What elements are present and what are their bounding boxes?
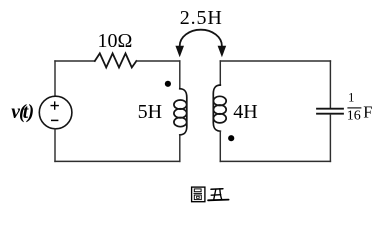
svg-text:16: 16 (347, 109, 361, 124)
wire left vertical above source (54, 61, 56, 96)
caption character 圖 (192, 187, 205, 202)
minus sign inside source (51, 119, 58, 121)
wire right-loop top segment (220, 60, 330, 62)
wire bottom-left segment (55, 160, 180, 162)
inductor L2 4H coil (213, 85, 220, 131)
resistor R1 10Ω (95, 53, 137, 67)
wire right vertical above capacitor (329, 61, 331, 108)
plus sign inside source (51, 101, 59, 109)
wire left vertical below source (54, 129, 56, 162)
svg-text:5H: 5H (138, 101, 162, 123)
polarity dot of L1 (165, 81, 171, 87)
wire L1 bottom lead (179, 135, 181, 162)
wire top-left segment (55, 60, 95, 62)
voltage source v(t) circle (39, 96, 72, 129)
mutual coupling arc 2.5H (180, 30, 222, 46)
svg-text:1: 1 (348, 91, 354, 105)
svg-text:10Ω: 10Ω (98, 30, 133, 52)
inductor L1 5H coil (180, 89, 187, 135)
polarity dot of L2 (228, 135, 234, 141)
mutual coupling arrowhead right (218, 46, 227, 58)
svg-text:4H: 4H (233, 101, 257, 123)
wire right vertical below capacitor (329, 115, 331, 162)
wire top-middle segment (resistor to L1) (136, 60, 179, 62)
wire L1 top lead (179, 61, 181, 89)
svg-text:v(t): v(t) (11, 102, 34, 123)
mutual coupling arrowhead left (175, 46, 184, 58)
wire right-loop bottom segment (220, 160, 330, 162)
capacitor C1 plates (317, 108, 343, 110)
svg-text:2.5H: 2.5H (180, 7, 222, 29)
wire L2 top lead (219, 61, 221, 85)
svg-text:F: F (363, 103, 372, 122)
caption character 五 (208, 189, 229, 201)
wire L2 bottom lead (219, 131, 221, 161)
